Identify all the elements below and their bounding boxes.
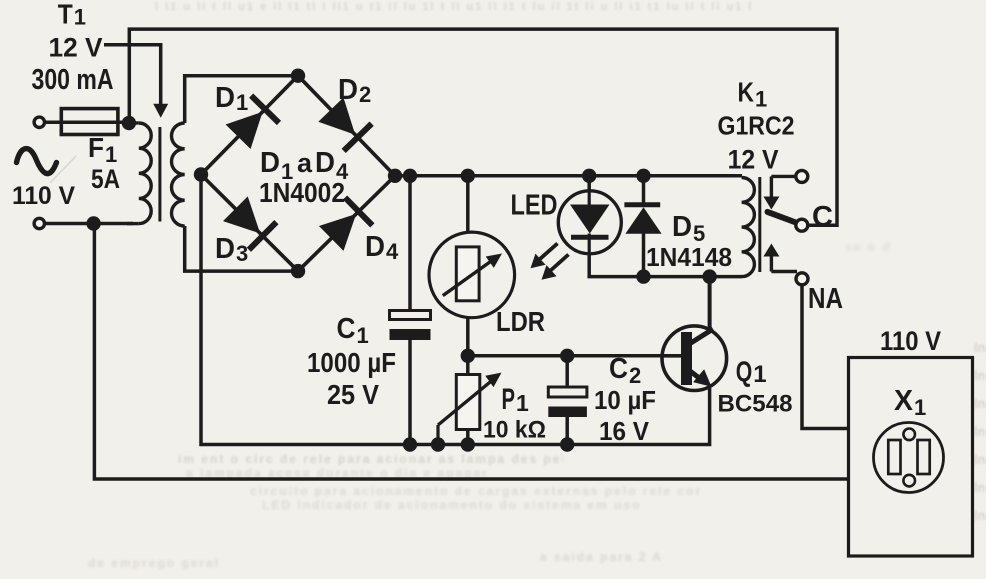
svg-text:12 V: 12 V [49, 33, 103, 63]
svg-text:BC548: BC548 [718, 391, 793, 418]
svg-text:4: 4 [386, 239, 399, 264]
svg-text:D: D [260, 147, 280, 179]
svg-text:10 kΩ: 10 kΩ [483, 417, 546, 444]
svg-text:LED: LED [511, 190, 558, 222]
svg-text:1: 1 [357, 323, 369, 348]
svg-text:1000 µF: 1000 µF [307, 347, 396, 378]
svg-text:NA: NA [808, 283, 843, 315]
svg-text:D: D [215, 233, 235, 265]
svg-text:1N4148: 1N4148 [646, 242, 732, 272]
svg-text:F: F [88, 132, 104, 163]
svg-text:LDR: LDR [496, 306, 545, 337]
svg-text:a: a [297, 148, 313, 178]
svg-text:110 V: 110 V [12, 182, 75, 210]
svg-text:1: 1 [516, 390, 529, 416]
svg-text:1: 1 [753, 361, 766, 388]
svg-text:C: C [812, 201, 833, 233]
svg-text:K: K [738, 77, 755, 108]
svg-text:X: X [894, 385, 914, 417]
svg-text:12 V: 12 V [728, 145, 779, 175]
svg-text:D: D [215, 82, 235, 114]
svg-text:D: D [672, 211, 692, 243]
svg-text:G1RC2: G1RC2 [718, 113, 795, 141]
svg-text:D: D [315, 147, 335, 179]
svg-text:1N4002: 1N4002 [259, 177, 345, 208]
svg-text:T: T [58, 0, 73, 30]
svg-text:3: 3 [236, 241, 248, 266]
svg-text:5A: 5A [91, 164, 120, 194]
svg-text:1: 1 [755, 87, 767, 112]
svg-text:1: 1 [236, 90, 248, 115]
svg-text:1: 1 [914, 395, 926, 420]
svg-text:10 µF: 10 µF [594, 385, 656, 415]
svg-text:C: C [337, 313, 356, 345]
svg-text:25 V: 25 V [327, 379, 379, 410]
svg-text:1: 1 [74, 5, 86, 30]
svg-text:300 mA: 300 mA [32, 64, 114, 96]
svg-text:2: 2 [359, 82, 371, 107]
svg-text:C: C [609, 353, 628, 385]
svg-text:Q: Q [736, 357, 753, 389]
svg-text:16 V: 16 V [599, 416, 650, 446]
svg-text:110 V: 110 V [880, 326, 941, 356]
svg-text:D: D [338, 74, 358, 106]
svg-text:P: P [502, 383, 516, 416]
svg-text:D: D [365, 231, 385, 263]
